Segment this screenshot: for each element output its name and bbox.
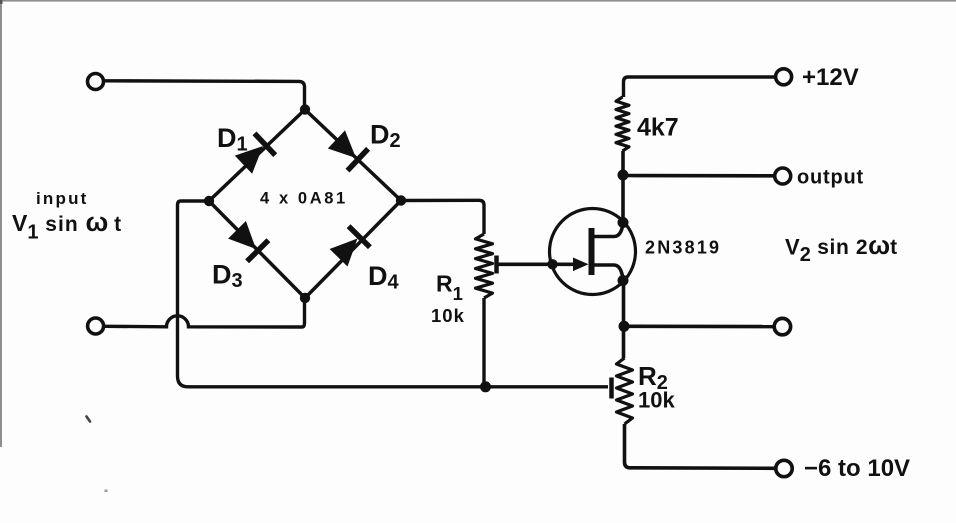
svg-text:4k7: 4k7 xyxy=(637,114,679,142)
svg-text:10k: 10k xyxy=(431,305,465,326)
transistor Q1 2N3819 xyxy=(550,209,636,295)
resistor R2 xyxy=(617,358,633,424)
wire bridge right to R1 xyxy=(401,200,484,234)
wire +12V to 4k7 xyxy=(624,77,776,97)
node bridge bottom xyxy=(300,293,310,303)
terminal +12V xyxy=(776,69,792,85)
diode D4 xyxy=(330,226,370,266)
wiper R1 tick xyxy=(494,256,499,274)
node bridge top xyxy=(300,104,310,114)
terminal output xyxy=(775,168,791,184)
wire output xyxy=(623,174,775,178)
node bridge right xyxy=(396,195,406,205)
node drain xyxy=(618,217,629,228)
resistor R1 xyxy=(476,234,493,298)
wire R1 bottom xyxy=(482,298,485,387)
wire R1 wiper to gate xyxy=(497,262,577,266)
terminal mid right xyxy=(774,318,790,334)
wire source to R2 xyxy=(622,281,626,359)
svg-text:+12V: +12V xyxy=(802,64,859,91)
wire bridge edge D2 xyxy=(305,110,401,201)
wire 4k7 to drain xyxy=(621,151,625,223)
node source rail junction xyxy=(619,321,630,332)
svg-text:output: output xyxy=(797,167,864,189)
speck marks xyxy=(87,417,91,422)
diode D3 xyxy=(228,221,268,261)
svg-text:2N3819: 2N3819 xyxy=(645,238,721,258)
node source xyxy=(618,275,629,286)
svg-text:4 x 0A81: 4 x 0A81 xyxy=(260,190,348,208)
diode D2 xyxy=(328,130,368,170)
wire R2 to -6to10V terminal xyxy=(625,424,777,468)
wire bridge edge D3 xyxy=(209,201,305,298)
wire bridge edge D1 xyxy=(209,110,305,202)
node bridge left xyxy=(204,196,214,206)
wire input bottom with hop xyxy=(104,300,305,327)
terminal input bottom xyxy=(88,318,104,334)
terminal -6 to 10V xyxy=(776,460,792,476)
wire to mid terminal xyxy=(624,324,774,328)
wire bridge left to lower rail xyxy=(178,201,609,387)
resistor 4k7 xyxy=(616,97,629,151)
wire bridge edge D4 xyxy=(305,201,401,299)
node gate xyxy=(547,259,557,269)
node R1 bottom rail xyxy=(480,381,491,392)
terminal input top xyxy=(88,74,104,90)
node output junction xyxy=(618,170,629,181)
svg-text:−6 to 10V: −6 to 10V xyxy=(804,455,910,482)
wire input top to bridge xyxy=(104,81,305,107)
svg-text:input: input xyxy=(36,189,89,208)
diode D1 xyxy=(235,133,275,173)
svg-text:10k: 10k xyxy=(638,388,675,413)
wiper R2 tick xyxy=(609,378,614,399)
